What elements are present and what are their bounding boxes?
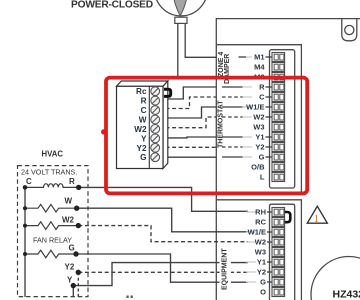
svg-text:C: C [26, 177, 32, 186]
svg-text:HVAC: HVAC [42, 150, 64, 159]
svg-text:W2: W2 [255, 238, 266, 247]
svg-text:G: G [260, 278, 266, 287]
svg-text:G: G [140, 153, 146, 162]
svg-text:R: R [69, 177, 75, 186]
svg-text:C: C [141, 106, 147, 115]
svg-text:POWER-CLOSED: POWER-CLOSED [71, 0, 153, 10]
svg-text:O/B: O/B [251, 163, 265, 172]
svg-text:Y2: Y2 [65, 263, 75, 272]
svg-text:Y2: Y2 [257, 268, 266, 277]
svg-text:L: L [260, 173, 265, 182]
svg-text:Y2: Y2 [255, 143, 264, 152]
svg-text:24 VOLT TRANS.: 24 VOLT TRANS. [21, 168, 77, 177]
svg-text:Y1: Y1 [257, 258, 266, 267]
svg-text:R: R [259, 83, 265, 92]
svg-text:W2: W2 [62, 216, 75, 225]
svg-text:C: C [259, 93, 265, 102]
svg-text:G: G [259, 153, 265, 162]
svg-text:RC: RC [255, 218, 266, 227]
svg-text:G: G [69, 244, 75, 253]
svg-text:FAN RELAY: FAN RELAY [33, 236, 72, 245]
svg-text:O: O [260, 288, 266, 297]
svg-text:HZ432: HZ432 [333, 289, 360, 300]
svg-text:Y1: Y1 [255, 133, 264, 142]
svg-text:W2: W2 [134, 125, 147, 134]
svg-text:M4: M4 [254, 63, 265, 72]
svg-text:1: 1 [314, 214, 319, 225]
svg-text:W: W [139, 116, 147, 125]
svg-text:W3: W3 [253, 123, 264, 132]
svg-text:Rc: Rc [136, 87, 147, 96]
svg-text:M1: M1 [254, 53, 264, 62]
svg-text:EQUIPMENT: EQUIPMENT [221, 248, 228, 290]
svg-text:W3: W3 [255, 248, 266, 257]
svg-text:RH: RH [255, 208, 266, 217]
svg-text:Y: Y [67, 276, 73, 285]
svg-text:W2: W2 [253, 113, 264, 122]
svg-text:Y2: Y2 [136, 144, 146, 153]
svg-text:W1/E: W1/E [248, 228, 266, 237]
svg-text:W1/E: W1/E [246, 103, 264, 112]
svg-text:W: W [65, 197, 73, 206]
svg-text:R: R [141, 97, 147, 106]
svg-text:Y: Y [141, 134, 147, 143]
